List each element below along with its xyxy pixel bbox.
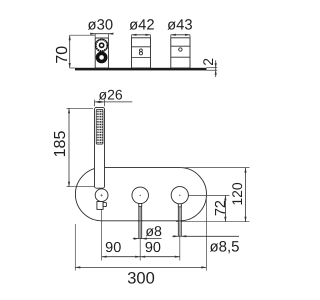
svg-text:ø43: ø43 <box>167 18 193 34</box>
svg-text:185: 185 <box>52 131 69 158</box>
svg-text:ø30: ø30 <box>88 18 114 34</box>
svg-text:120: 120 <box>229 182 245 206</box>
svg-text:ø26: ø26 <box>99 86 123 102</box>
svg-text:72: 72 <box>213 200 229 216</box>
svg-text:90: 90 <box>145 240 161 256</box>
svg-text:ø42: ø42 <box>129 18 155 34</box>
svg-text:ø8,5: ø8,5 <box>209 238 239 255</box>
svg-text:70: 70 <box>54 46 71 64</box>
svg-text:300: 300 <box>127 269 155 287</box>
svg-text:2: 2 <box>200 58 216 66</box>
svg-text:90: 90 <box>105 240 121 256</box>
svg-text:ø8: ø8 <box>145 224 162 240</box>
